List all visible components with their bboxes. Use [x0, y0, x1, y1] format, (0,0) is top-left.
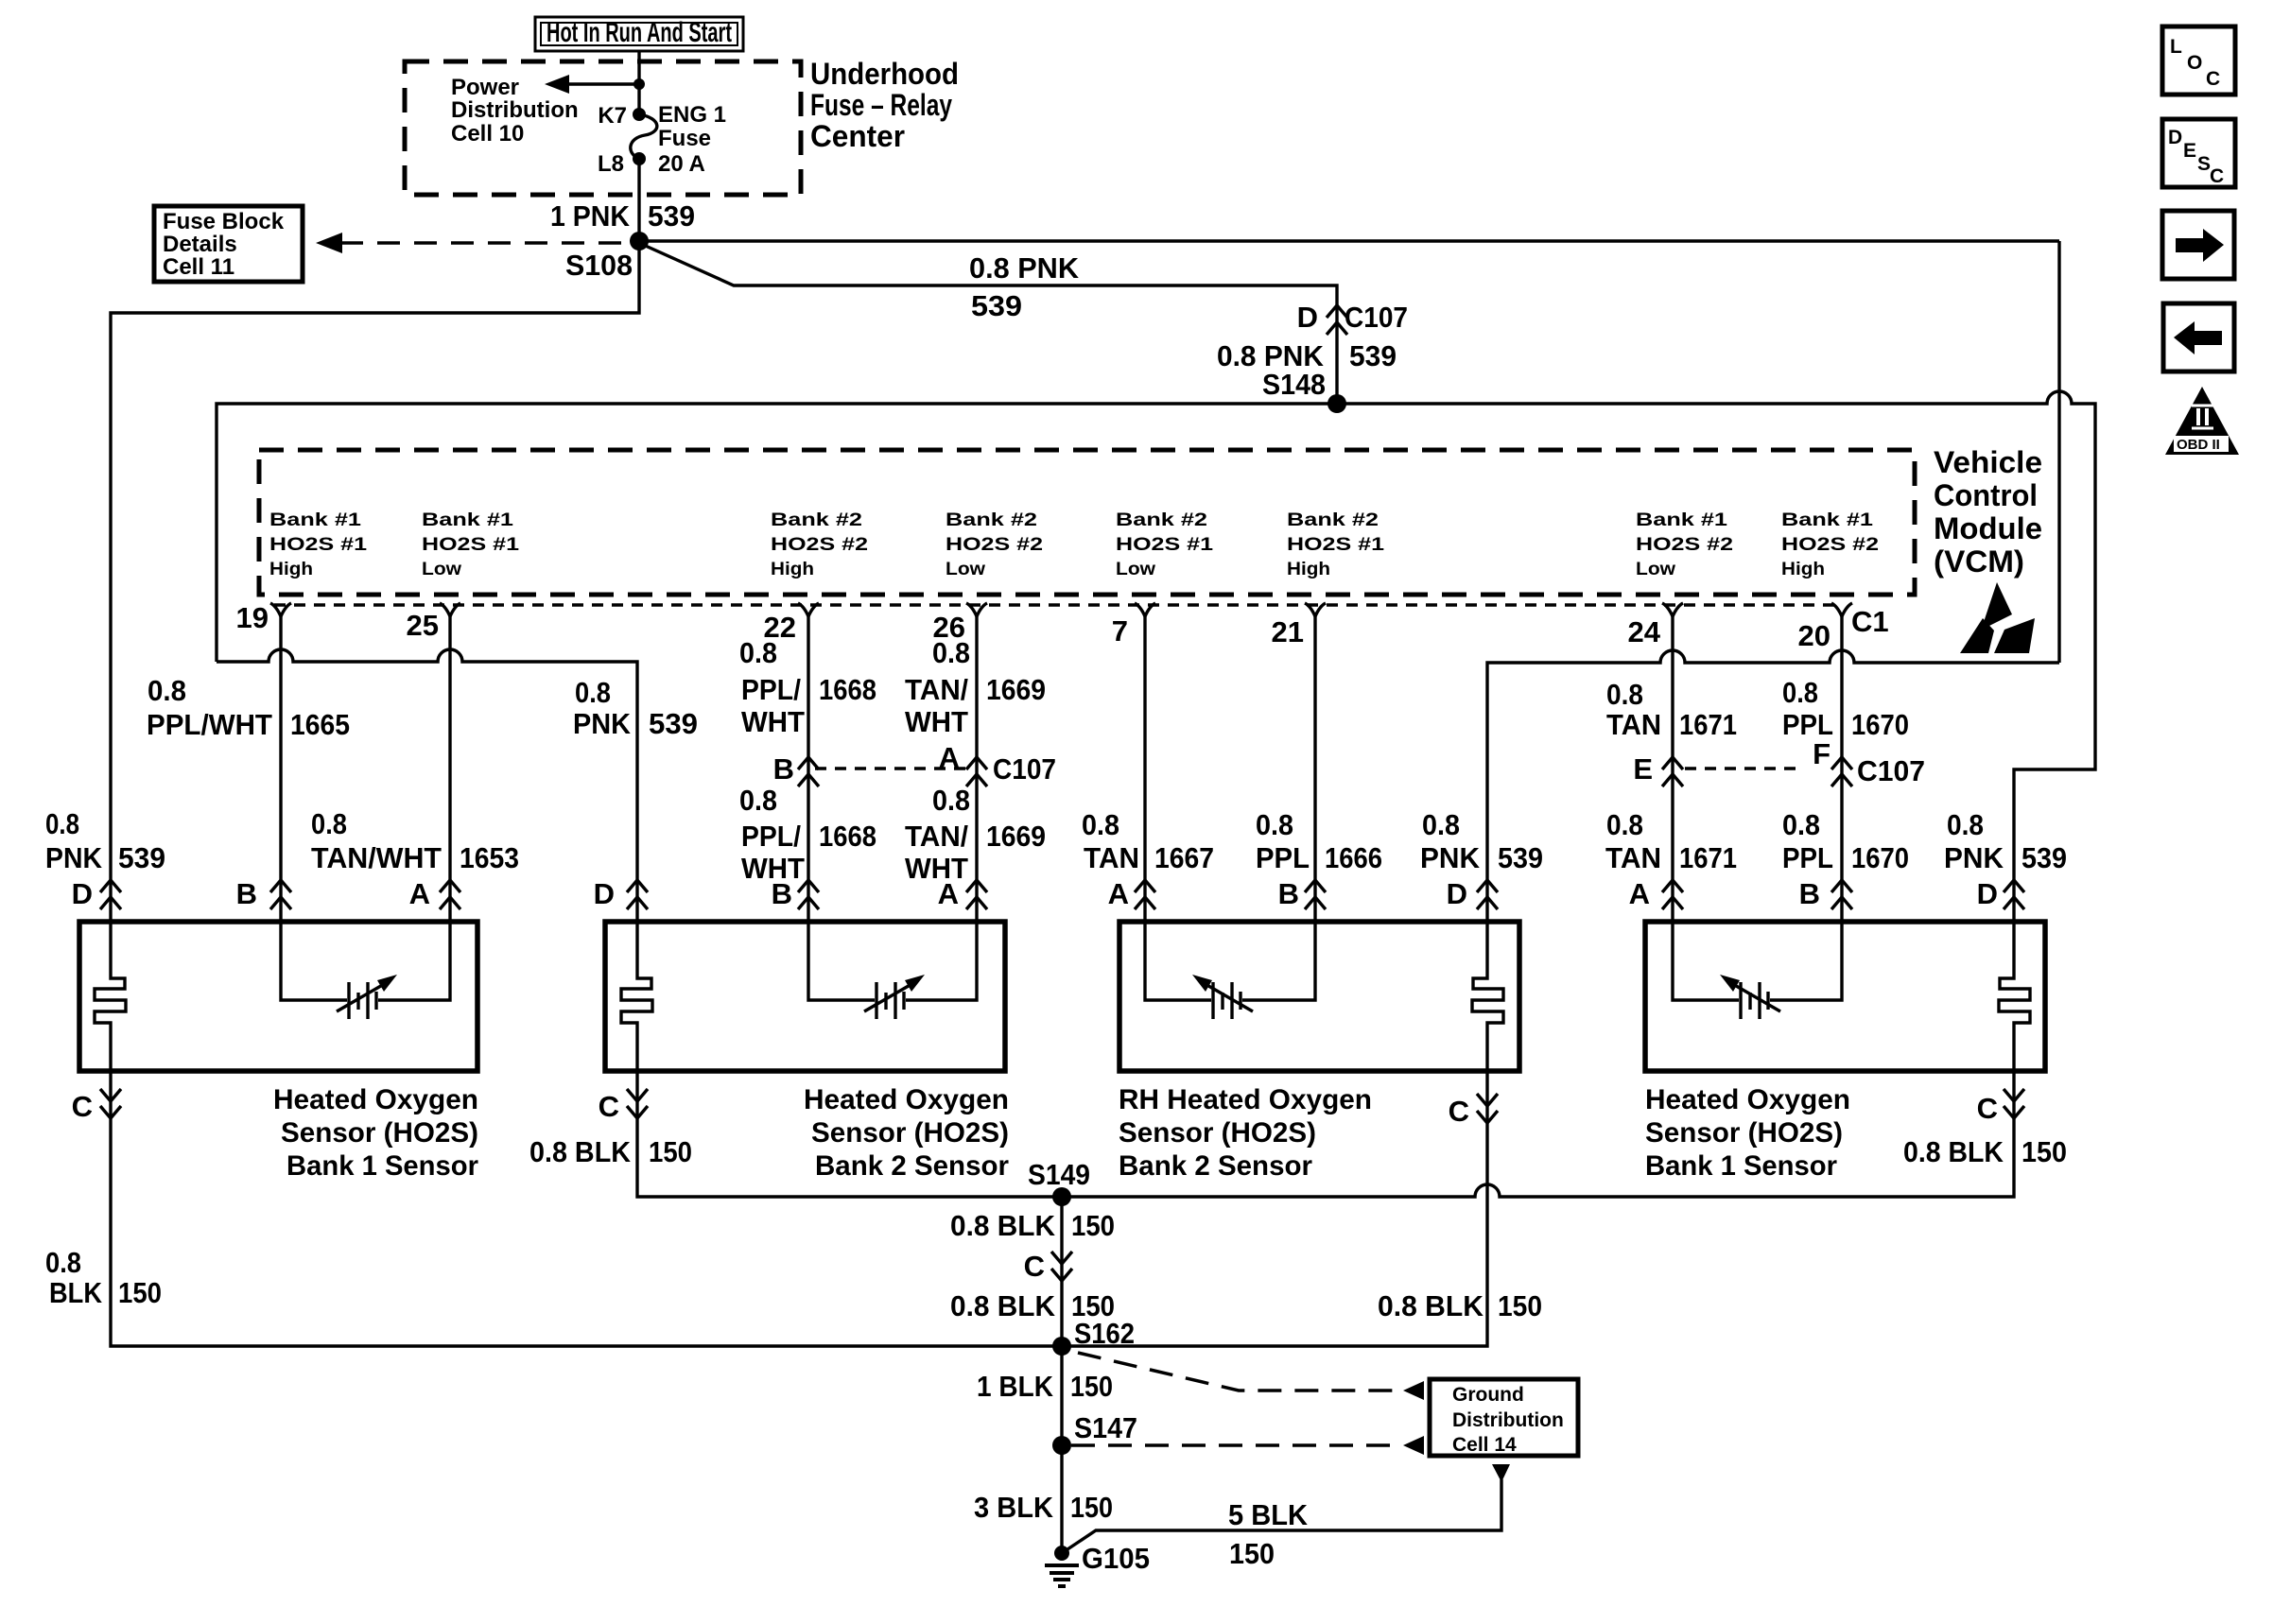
svg-text:0.8 BLK: 0.8 BLK: [1903, 1135, 2004, 1168]
svg-text:TAN/: TAN/: [905, 673, 968, 706]
svg-text:High: High: [1781, 560, 1825, 579]
sensor2 C wire down to S149: [637, 1071, 1062, 1197]
svg-text:C107: C107: [1857, 754, 1925, 787]
svg-text:O: O: [2187, 52, 2202, 74]
VCM dashed box: [259, 450, 1915, 595]
sensor1 C wire down to S162 run: [111, 1071, 1062, 1346]
wire pin 22 to sensor2 B (0.8 PPL/WHT 1668): [807, 616, 809, 924]
svg-text:0.8: 0.8: [1782, 808, 1820, 841]
Bank pin function labels: [269, 510, 1879, 579]
splice S149: [1028, 1158, 1090, 1206]
wire labels sensor1 C: [45, 1246, 162, 1309]
sensor4 C wire down then left to S149 with hop over sensor3 C wire: [1062, 1071, 2014, 1197]
svg-text:PPL/WHT: PPL/WHT: [147, 708, 272, 741]
VCM C1 pin 20 terminal: [1798, 603, 1852, 652]
svg-text:PNK: PNK: [45, 841, 103, 874]
svg-text:0.8 BLK: 0.8 BLK: [950, 1289, 1056, 1322]
svg-text:TAN/WHT: TAN/WHT: [311, 841, 442, 874]
wire S108 right to far right drop: [639, 239, 2059, 242]
sensing element sensor1: [281, 924, 450, 1019]
svg-text:25: 25: [407, 609, 439, 642]
svg-text:Bank 2 Sensor: Bank 2 Sensor: [815, 1150, 1009, 1182]
heater element sensor2: [621, 924, 652, 1071]
svg-text:C: C: [599, 1090, 619, 1123]
svg-text:Sensor (HO2S): Sensor (HO2S): [1119, 1117, 1316, 1149]
svg-text:Low: Low: [946, 560, 985, 579]
svg-text:0.8: 0.8: [1082, 808, 1119, 841]
svg-text:K7: K7: [598, 103, 627, 129]
svg-text:150: 150: [649, 1135, 692, 1168]
svg-text:A: A: [939, 741, 960, 774]
wire pin 7 to sensor3 A (0.8 TAN 1667): [1143, 616, 1146, 924]
svg-text:WHT: WHT: [905, 705, 968, 738]
svg-text:B: B: [1278, 877, 1299, 910]
sensor3 pin A arrow: [1108, 877, 1155, 910]
svg-text:PNK: PNK: [573, 707, 632, 740]
wire pin 19 to sensor1 B (0.8 PPL/WHT 1665): [279, 616, 282, 924]
svg-text:24: 24: [1628, 615, 1661, 648]
svg-text:F: F: [1813, 737, 1831, 770]
svg-text:D: D: [1447, 877, 1467, 910]
svg-text:1670: 1670: [1851, 841, 1909, 874]
dashed wire S108 to Fuse Block Details: [316, 233, 639, 253]
svg-text:S108: S108: [565, 249, 633, 282]
svg-text:Fuse Block: Fuse Block: [163, 209, 285, 234]
svg-text:C: C: [1977, 1092, 1998, 1125]
svg-text:S162: S162: [1074, 1317, 1135, 1350]
svg-text:(VCM): (VCM): [1934, 544, 2024, 579]
ESD symbol: [1960, 582, 2035, 653]
svg-text:21: 21: [1272, 615, 1304, 648]
svg-text:150: 150: [1071, 1209, 1115, 1242]
svg-text:7: 7: [1112, 614, 1128, 648]
svg-text:Fuse: Fuse: [658, 126, 711, 151]
sensor1 pin C arrow: [72, 1089, 121, 1123]
VCM C1 pin 21 terminal: [1272, 603, 1326, 648]
svg-text:TAN/: TAN/: [905, 820, 968, 853]
svg-text:A: A: [1108, 877, 1129, 910]
svg-text:TAN: TAN: [1606, 708, 1661, 741]
power source box "Hot In Run And Start": [535, 17, 743, 51]
svg-text:150: 150: [1498, 1289, 1542, 1322]
svg-text:L8: L8: [598, 151, 624, 177]
svg-text:Cell 11: Cell 11: [163, 254, 234, 280]
svg-text:3 BLK: 3 BLK: [974, 1491, 1054, 1524]
svg-text:BLK: BLK: [49, 1276, 103, 1309]
svg-text:C: C: [1024, 1250, 1045, 1283]
svg-text:PNK: PNK: [1944, 841, 2004, 874]
svg-text:Bank #1: Bank #1: [422, 510, 514, 530]
svg-text:Vehicle: Vehicle: [1934, 445, 2042, 479]
svg-text:0.8 BLK: 0.8 BLK: [529, 1135, 632, 1168]
LOC icon: [2162, 26, 2235, 95]
svg-text:S: S: [2197, 153, 2211, 175]
sensor name labels: [273, 1084, 1850, 1182]
sensor1 pin D arrow: [72, 877, 121, 910]
svg-text:0.8: 0.8: [739, 784, 777, 817]
svg-text:0.8: 0.8: [575, 676, 611, 709]
svg-text:0.8: 0.8: [739, 636, 777, 669]
svg-text:S148: S148: [1262, 368, 1326, 401]
svg-text:0.8 BLK: 0.8 BLK: [1378, 1289, 1484, 1322]
svg-text:0.8: 0.8: [1782, 676, 1818, 709]
svg-text:Bank 1 Sensor: Bank 1 Sensor: [286, 1150, 478, 1182]
svg-text:1 PNK: 1 PNK: [550, 199, 631, 233]
splice S108: [565, 232, 649, 282]
svg-text:TAN: TAN: [1084, 841, 1139, 874]
wire pin 21 to sensor3 B (0.8 PPL 1666): [1313, 616, 1316, 924]
VCM C1 pin 24 terminal: [1628, 603, 1683, 648]
wire right power run y=701 with hops over pins 24,20 from x=2178 left to sensor3 D: [1487, 650, 2059, 924]
svg-text:1670: 1670: [1851, 708, 1909, 741]
svg-text:High: High: [269, 560, 313, 579]
svg-text:HO2S #1: HO2S #1: [422, 535, 520, 555]
wire S162 down to S147: [1060, 1346, 1063, 1445]
svg-text:Hot In Run And Start: Hot In Run And Start: [547, 17, 732, 48]
wire left power run y=700 with hops over pins 19,25 then down to sensor2 D: [217, 649, 637, 924]
svg-text:C1: C1: [1851, 605, 1889, 638]
connector C107 pins B and A: [773, 741, 1056, 786]
svg-text:150: 150: [1070, 1370, 1113, 1403]
svg-text:Bank #1: Bank #1: [1781, 510, 1874, 530]
svg-text:Sensor (HO2S): Sensor (HO2S): [1645, 1117, 1843, 1149]
sensor3 C wire straight down to S162 run: [1062, 1073, 1487, 1346]
svg-text:C: C: [2210, 165, 2224, 187]
svg-text:1667: 1667: [1154, 841, 1214, 874]
svg-text:0.8: 0.8: [1606, 678, 1643, 711]
svg-text:1 BLK: 1 BLK: [977, 1370, 1054, 1403]
svg-text:Bank #1: Bank #1: [1636, 510, 1728, 530]
fuse ENG 1 20A (K7/L8): [598, 102, 726, 177]
svg-text:0.8 PNK: 0.8 PNK: [969, 251, 1080, 285]
svg-text:C: C: [2206, 68, 2220, 90]
svg-text:20: 20: [1798, 619, 1831, 652]
svg-text:0.8: 0.8: [45, 807, 79, 840]
sensing element sensor3 (mirrored): [1145, 924, 1315, 1019]
svg-text:Cell 14: Cell 14: [1452, 1434, 1517, 1456]
svg-text:D: D: [1977, 877, 1998, 910]
wire S149 down to S162: [1060, 1197, 1063, 1346]
svg-text:19: 19: [236, 601, 269, 634]
svg-text:Sensor (HO2S): Sensor (HO2S): [281, 1117, 478, 1149]
svg-text:150: 150: [2021, 1135, 2067, 1168]
svg-text:C107: C107: [993, 752, 1056, 786]
svg-text:Control: Control: [1934, 478, 2038, 512]
svg-text:WHT: WHT: [741, 705, 805, 738]
back arrow icon: [2163, 303, 2234, 371]
svg-text:0.8: 0.8: [147, 674, 186, 707]
svg-text:S149: S149: [1028, 1158, 1090, 1191]
svg-text:Bank 2 Sensor: Bank 2 Sensor: [1119, 1150, 1312, 1182]
connector C1 pin row dashed line: [274, 603, 1842, 606]
VCM C1 pin 26 terminal: [933, 603, 987, 644]
svg-text:PPL/: PPL/: [741, 820, 801, 853]
svg-text:B: B: [773, 752, 794, 786]
sensor2 pin D arrow: [594, 877, 648, 910]
svg-text:1653: 1653: [460, 841, 519, 874]
svg-text:High: High: [1287, 560, 1330, 579]
svg-text:Cell 10: Cell 10: [451, 121, 524, 147]
svg-text:0.8: 0.8: [1606, 808, 1643, 841]
sensor2 pin A arrow: [938, 877, 987, 910]
svg-text:Bank #2: Bank #2: [771, 510, 862, 530]
svg-text:Ground: Ground: [1452, 1384, 1524, 1406]
svg-text:Underhood: Underhood: [810, 57, 959, 91]
sensor3 pin C arrow: [1449, 1094, 1498, 1128]
forward arrow icon: [2162, 211, 2234, 279]
heater element sensor3 (mirrored): [1472, 924, 1503, 1071]
sensor1 pin A arrow: [409, 877, 460, 910]
svg-text:Power: Power: [451, 75, 519, 100]
svg-text:Bank #2: Bank #2: [946, 510, 1037, 530]
svg-text:1671: 1671: [1679, 708, 1737, 741]
sensor2 pin C arrow: [599, 1089, 648, 1123]
svg-text:A: A: [1629, 877, 1650, 910]
sensor4 pin B arrow: [1799, 877, 1852, 910]
wire pin 26 to sensor2 A (0.8 TAN/WHT 1669): [975, 616, 978, 924]
svg-text:Fuse – Relay: Fuse – Relay: [810, 88, 952, 122]
svg-text:A: A: [409, 877, 430, 910]
svg-text:PPL/: PPL/: [741, 673, 801, 706]
sensor4 pin A arrow: [1629, 877, 1683, 910]
Fuse Block Details Cell 11 box: [154, 206, 303, 282]
svg-text:HO2S #1: HO2S #1: [269, 535, 368, 555]
svg-text:539: 539: [1349, 339, 1397, 372]
Power Distribution Cell 10 reference: [451, 75, 579, 147]
splice S148: [1262, 368, 1346, 413]
svg-text:539: 539: [1498, 841, 1543, 874]
svg-text:539: 539: [2021, 841, 2067, 874]
VCM C1 pin 22 terminal: [764, 603, 819, 644]
svg-text:150: 150: [1229, 1537, 1275, 1570]
svg-text:1669: 1669: [986, 820, 1046, 853]
svg-text:Heated Oxygen: Heated Oxygen: [273, 1084, 478, 1115]
svg-text:0.8: 0.8: [1947, 808, 1984, 841]
svg-text:D: D: [72, 877, 93, 910]
svg-text:D: D: [1297, 301, 1318, 334]
wire S148 run left along y=427 then down left side: [217, 404, 1337, 662]
svg-text:C107: C107: [1345, 301, 1408, 334]
svg-text:HO2S #2: HO2S #2: [946, 535, 1043, 555]
HO2S Bank 1 Sensor 2 box: [1645, 922, 2045, 1071]
svg-text:RH Heated Oxygen: RH Heated Oxygen: [1119, 1084, 1372, 1115]
svg-text:TAN: TAN: [1605, 841, 1661, 874]
wire from Ground Distribution down (5 BLK 150): [1062, 1464, 1510, 1570]
sensor1 pin B arrow: [236, 877, 291, 910]
svg-text:HO2S #2: HO2S #2: [1636, 535, 1733, 555]
svg-text:Distribution: Distribution: [451, 97, 579, 123]
svg-text:PPL: PPL: [1782, 708, 1833, 741]
svg-text:Bank #2: Bank #2: [1116, 510, 1207, 530]
ground G105: [1045, 1542, 1150, 1586]
svg-text:C: C: [1449, 1095, 1469, 1128]
sensor3 pin D arrow: [1447, 877, 1498, 910]
svg-text:539: 539: [971, 289, 1022, 322]
wire S148 run right along y=427 with hop over x=2178, corner down to 814 then to sensor4 D: [1337, 391, 2095, 924]
svg-text:C: C: [72, 1090, 93, 1123]
svg-text:539: 539: [648, 199, 695, 233]
svg-text:HO2S #2: HO2S #2: [771, 535, 868, 555]
svg-text:Details: Details: [163, 232, 237, 257]
svg-text:1668: 1668: [819, 673, 876, 706]
svg-text:E: E: [1633, 752, 1653, 786]
svg-text:Low: Low: [422, 560, 461, 579]
svg-text:B: B: [772, 877, 792, 910]
svg-text:G105: G105: [1082, 1542, 1150, 1575]
svg-text:Heated Oxygen: Heated Oxygen: [1645, 1084, 1850, 1115]
VCM C1 pin 19 terminal: [236, 601, 291, 634]
VCM C1 pin 25 terminal: [407, 603, 460, 642]
wire arrow to Power Distribution: [545, 75, 645, 94]
svg-text:PPL: PPL: [1256, 841, 1310, 874]
heater element sensor1: [95, 924, 126, 1071]
svg-text:0.8: 0.8: [1256, 808, 1293, 841]
svg-text:S147: S147: [1074, 1411, 1137, 1444]
svg-text:B: B: [236, 877, 257, 910]
RH HO2S Bank 2 Sensor 1 box: [1119, 922, 1519, 1071]
connector C107 pins E and F: [1633, 737, 1925, 787]
svg-text:A: A: [938, 877, 959, 910]
svg-text:539: 539: [118, 841, 165, 874]
svg-text:0.8: 0.8: [45, 1246, 81, 1279]
heater element sensor4 (mirrored): [1999, 924, 2030, 1071]
svg-text:Bank #2: Bank #2: [1287, 510, 1379, 530]
svg-text:ENG 1: ENG 1: [658, 102, 726, 128]
wire pin 24 to sensor4 A (0.8 TAN 1671): [1671, 616, 1674, 924]
sensor4 pin D arrow: [1977, 877, 2024, 910]
svg-text:1665: 1665: [290, 708, 350, 741]
connector C107 pin D (top): [1217, 301, 1408, 372]
svg-text:PPL: PPL: [1782, 841, 1833, 874]
svg-text:150: 150: [1070, 1491, 1113, 1524]
wire S147 down to G105: [1060, 1445, 1063, 1553]
svg-text:E: E: [2183, 140, 2196, 162]
svg-text:0.8: 0.8: [311, 807, 347, 840]
sensor2 pin B arrow: [772, 877, 819, 910]
svg-text:Module: Module: [1934, 511, 2042, 545]
Ground Distribution Cell 14 box: [1430, 1379, 1578, 1456]
svg-text:20 A: 20 A: [658, 151, 705, 177]
svg-text:OBD II: OBD II: [2177, 437, 2220, 453]
svg-text:Sensor (HO2S): Sensor (HO2S): [811, 1117, 1009, 1149]
svg-text:Low: Low: [1116, 560, 1155, 579]
svg-text:Center: Center: [810, 119, 905, 153]
HO2S Bank 2 Sensor 2 box: [605, 922, 1005, 1071]
svg-text:1668: 1668: [819, 820, 876, 853]
svg-text:Bank #1: Bank #1: [269, 510, 362, 530]
svg-text:HO2S #1: HO2S #1: [1116, 535, 1214, 555]
wire pin 25 to sensor1 A (0.8 TAN/WHT 1653): [448, 616, 451, 924]
svg-text:1671: 1671: [1679, 841, 1737, 874]
svg-text:HO2S #1: HO2S #1: [1287, 535, 1385, 555]
svg-text:Distribution: Distribution: [1452, 1409, 1564, 1431]
svg-text:D: D: [594, 877, 615, 910]
wire right drop x=2178 down to right power run: [2057, 241, 2060, 663]
svg-text:1666: 1666: [1325, 841, 1382, 874]
DESC icon: [2162, 119, 2235, 187]
svg-text:5 BLK: 5 BLK: [1228, 1498, 1309, 1531]
svg-text:0.8: 0.8: [932, 636, 970, 669]
svg-text:Heated Oxygen: Heated Oxygen: [804, 1084, 1009, 1115]
svg-text:HO2S #2: HO2S #2: [1781, 535, 1879, 555]
svg-text:B: B: [1799, 877, 1820, 910]
wire pin 20 to sensor4 B (0.8 PPL 1670): [1840, 616, 1843, 924]
svg-text:PNK: PNK: [1420, 841, 1481, 874]
HO2S Bank 1 Sensor 1 box: [79, 922, 477, 1071]
svg-text:Low: Low: [1636, 560, 1675, 579]
svg-text:High: High: [771, 560, 814, 579]
svg-text:L: L: [2170, 36, 2182, 58]
VCM C1 pin 7 terminal: [1112, 603, 1155, 648]
wire from Hot box down to fuse: [637, 50, 640, 114]
svg-text:1669: 1669: [986, 673, 1046, 706]
wire fuse to S108, label 1 PNK 539: [550, 159, 695, 241]
svg-text:D: D: [2168, 127, 2182, 148]
OBD II symbol: [2165, 387, 2239, 455]
svg-text:0.8: 0.8: [1422, 808, 1460, 841]
dashed wire S162 to Ground Distribution: [1078, 1353, 1424, 1400]
Underhood Fuse-Relay Center dashed box: [405, 57, 959, 195]
splice S147: [1052, 1411, 1137, 1455]
connector C107 pin C down-arrow: [1024, 1250, 1072, 1283]
sensing element sensor2: [808, 924, 977, 1019]
svg-text:150: 150: [118, 1276, 162, 1309]
svg-text:0.8: 0.8: [932, 784, 970, 817]
sensing element sensor4 (mirrored): [1673, 924, 1842, 1019]
sensor4 pin C arrow: [1977, 1089, 2024, 1125]
wire 0.8 PNK 539 branch S108 to S148: [639, 243, 1337, 404]
svg-text:Bank 1 Sensor: Bank 1 Sensor: [1645, 1150, 1837, 1182]
VCM label: [1934, 445, 2042, 579]
svg-text:0.8 BLK: 0.8 BLK: [950, 1209, 1056, 1242]
svg-text:539: 539: [649, 707, 698, 740]
dashed wire S147 to Ground Distribution: [1071, 1436, 1424, 1455]
splice S162: [1052, 1317, 1135, 1356]
wire S108 left branch down-left-down to sensor1 D: [111, 241, 639, 924]
sensor3 pin B arrow: [1278, 877, 1326, 910]
